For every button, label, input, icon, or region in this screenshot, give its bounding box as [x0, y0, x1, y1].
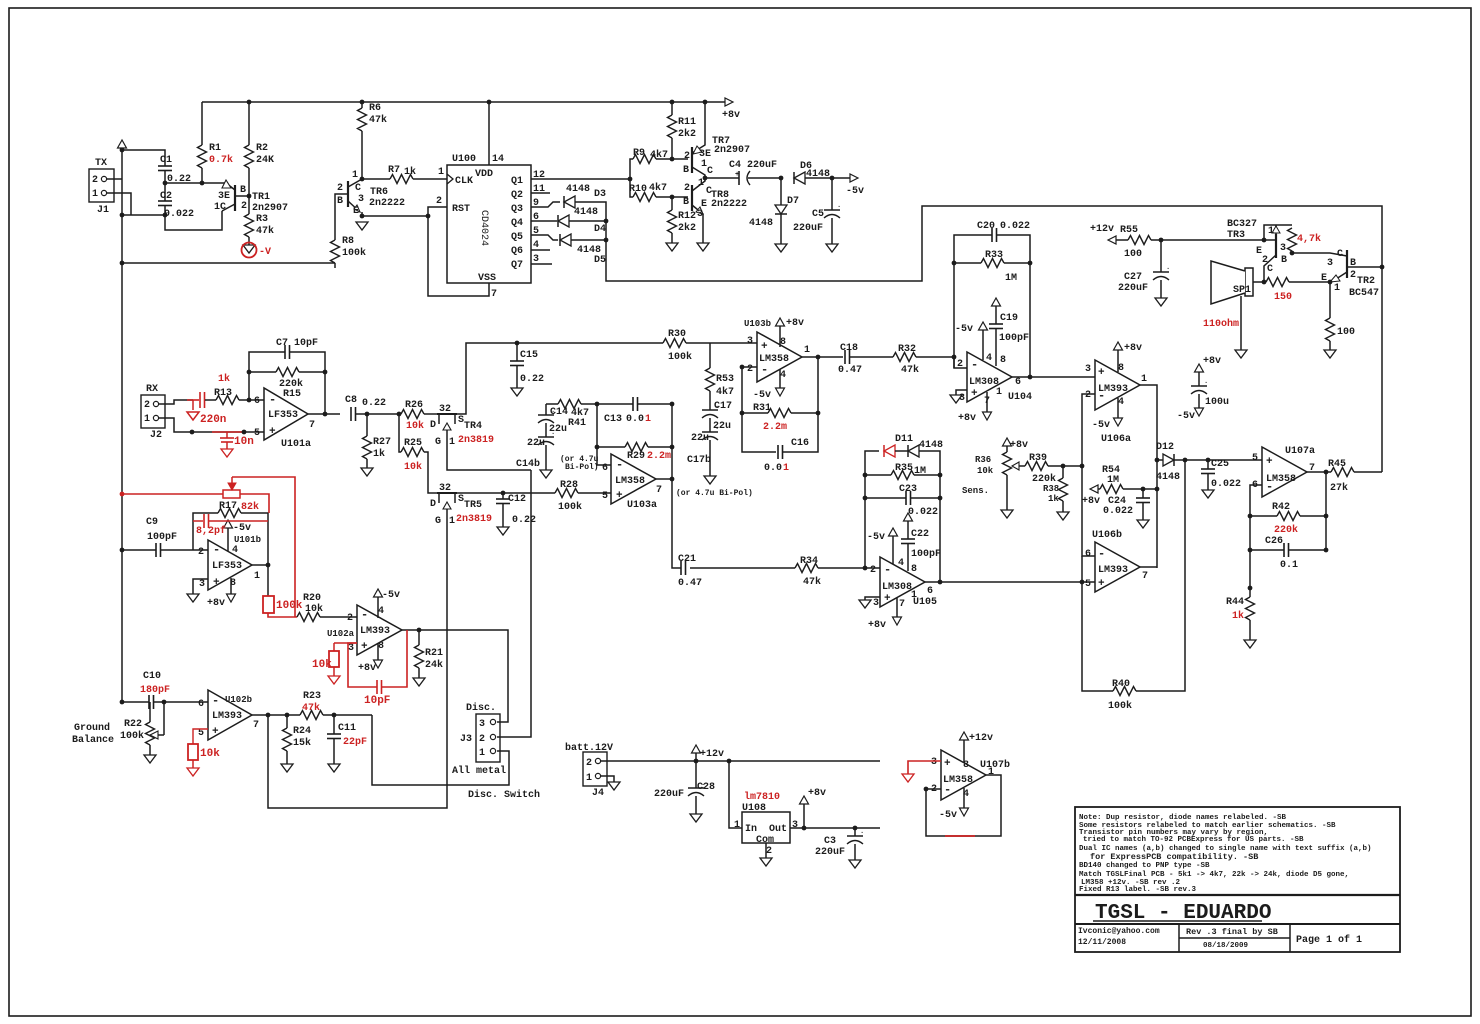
svg-text:2: 2 [1350, 270, 1356, 281]
wire R3 bottom [248, 237, 250, 245]
wire D11 mid [895, 450, 908, 452]
svg-text:220uF: 220uF [1118, 283, 1148, 294]
svg-text:10pF: 10pF [364, 695, 390, 707]
svg-text:D7: D7 [787, 196, 799, 207]
wire U101b pin3 gnd [193, 579, 208, 594]
resistor 150 [1266, 278, 1289, 287]
svg-text:C19: C19 [1000, 313, 1018, 324]
junction rail R11 [670, 100, 675, 105]
resistor R45 [1331, 468, 1354, 477]
junction C25 tap [1206, 458, 1211, 463]
wire R24 [286, 715, 288, 728]
svg-text:.: . [1166, 264, 1170, 272]
wire R55 right [1151, 239, 1264, 241]
svg-text:Note: Dup resistor, diode name: Note: Dup resistor, diode names relabele… [1079, 814, 1287, 822]
svg-text:R3: R3 [256, 214, 268, 225]
junction C13 right [670, 402, 675, 407]
svg-text:47k: 47k [256, 225, 274, 237]
wire C13 row [597, 403, 633, 405]
svg-text:1: 1 [1268, 226, 1274, 237]
power +V arrow TX [118, 140, 127, 148]
svg-text:3: 3 [697, 209, 703, 220]
capacitor C18 0.47 [844, 350, 846, 364]
junction U107b pin2 [924, 787, 929, 792]
capacitor C10 180pF [148, 695, 150, 709]
svg-text:2: 2 [436, 196, 442, 207]
capacitor C28 220uF [695, 761, 697, 788]
svg-text:J3: J3 [460, 734, 472, 745]
title block separator [1075, 894, 1400, 896]
title block outer box [1075, 807, 1400, 952]
svg-text:U101b: U101b [234, 535, 261, 545]
svg-text:2: 2 [957, 359, 963, 370]
svg-text:TX: TX [95, 158, 107, 169]
svg-text:10k: 10k [312, 659, 332, 671]
resistor 4.7k TR3 [1288, 228, 1297, 251]
capacitor C25 0.022 [1207, 460, 1209, 469]
resistor R30 [663, 339, 686, 348]
svg-text:5: 5 [1085, 579, 1091, 590]
svg-text:8,2pf: 8,2pf [196, 525, 226, 537]
transistor TR2 BC547 [1346, 250, 1348, 278]
wire R6 bottom [361, 131, 363, 179]
resistor 100 TR2 [1326, 318, 1335, 341]
svg-text:C28: C28 [697, 782, 715, 793]
capacitor C17 22u [709, 391, 711, 410]
svg-text:BD140 changed to PNP type -S: BD140 changed to PNP type -SB [1079, 862, 1210, 870]
svg-text:Ivconic@yahoo.com: Ivconic@yahoo.com [1078, 927, 1160, 936]
svg-text:R23: R23 [303, 691, 321, 702]
wire R30 right [686, 342, 757, 344]
svg-text:+8v: +8v [207, 598, 225, 609]
wire fb to pin2 [926, 789, 945, 836]
svg-text:8: 8 [1000, 355, 1006, 366]
diode D7 [775, 205, 787, 214]
svg-text:8: 8 [963, 760, 969, 771]
svg-text:2: 2 [1085, 390, 1091, 401]
wire C10 right [154, 701, 209, 703]
junction R12 base TR8 [670, 195, 675, 200]
svg-text:+12v: +12v [700, 749, 724, 760]
svg-text:-: - [269, 393, 276, 407]
svg-text:1C: 1C [214, 202, 226, 213]
svg-text:100k: 100k [668, 351, 692, 363]
svg-text:+: + [269, 426, 276, 438]
ground D7 [775, 244, 787, 252]
wire Q5 to D5 [531, 235, 558, 240]
wire R45 right [1354, 471, 1382, 473]
svg-text:TR2: TR2 [1357, 276, 1375, 287]
wire fb vertical [671, 404, 673, 479]
svg-text:Disc. Switch: Disc. Switch [468, 789, 540, 801]
power +12v batt [692, 745, 701, 753]
wire U103a out [656, 478, 672, 480]
capacitor C4 220uF [738, 171, 740, 185]
diode D3 [564, 196, 575, 208]
svg-text:2k2: 2k2 [678, 128, 696, 140]
wire TR5 gate long [268, 519, 447, 808]
svg-text:-: - [1098, 389, 1105, 403]
svg-text:12/11/2008: 12/11/2008 [1078, 938, 1126, 947]
svg-text:U102b: U102b [225, 695, 252, 705]
svg-text:3: 3 [348, 643, 354, 654]
wire D11 box left [865, 451, 879, 570]
svg-text:100pF: 100pF [911, 549, 941, 560]
wire R1 bottom [201, 168, 203, 183]
svg-text:U102a: U102a [327, 629, 355, 639]
wire U108 out [790, 827, 880, 829]
wire R17 right [241, 513, 268, 565]
junction TR7TR8 node [703, 176, 708, 181]
junction R35 left [863, 473, 868, 478]
svg-text:1: 1 [1334, 283, 1340, 294]
power +8v reg [800, 796, 809, 804]
svg-text:220uF: 220uF [793, 223, 823, 234]
svg-text:R39: R39 [1029, 453, 1047, 464]
svg-text:82k: 82k [241, 501, 259, 513]
svg-text:4k7: 4k7 [649, 182, 667, 194]
junction D5 bus [604, 238, 609, 243]
svg-text:3E: 3E [218, 191, 230, 202]
svg-text:8: 8 [911, 564, 917, 575]
svg-text:Q1: Q1 [511, 176, 523, 187]
wire R15 left [249, 371, 276, 373]
resistor R33 [981, 259, 1004, 268]
transistor TR6 2n2222 [347, 181, 349, 207]
svg-text:B: B [240, 185, 246, 196]
svg-text:6: 6 [602, 463, 608, 474]
svg-text:VSS: VSS [478, 273, 496, 284]
junction C26 right [1324, 548, 1329, 553]
svg-text:VDD: VDD [475, 169, 493, 180]
red cap 8,2pf [193, 520, 203, 522]
junction C3 tap [853, 826, 858, 831]
wire J1 pin1 [107, 193, 131, 215]
svg-text:10k: 10k [200, 748, 220, 760]
svg-text:R15: R15 [283, 389, 301, 400]
svg-text:6: 6 [1085, 549, 1091, 560]
svg-text:C13: C13 [604, 414, 622, 425]
svg-text:100k: 100k [342, 247, 366, 259]
pot R22 Ground Balance [149, 702, 151, 722]
wire R9 right [656, 158, 688, 160]
svg-text:6: 6 [198, 699, 204, 710]
wire pin2 jog [954, 357, 967, 368]
svg-text:+: + [884, 593, 891, 605]
junction C11 tap [332, 713, 337, 718]
svg-text:B: B [1281, 255, 1287, 266]
svg-text:C27: C27 [1124, 272, 1142, 283]
svg-text:R41: R41 [568, 418, 586, 429]
svg-text:2n2222: 2n2222 [369, 198, 405, 209]
svg-text:Balance: Balance [72, 734, 114, 746]
svg-text:0.47: 0.47 [838, 365, 862, 376]
svg-text:+8v: +8v [786, 318, 804, 329]
junction R11 base TR7 [670, 157, 675, 162]
svg-text:2n2907: 2n2907 [252, 203, 288, 214]
svg-text:15k: 15k [293, 737, 311, 749]
wire R12 bottom [671, 233, 673, 243]
resistor R8 [331, 240, 340, 263]
svg-text:Q5: Q5 [511, 232, 523, 243]
ground -V red circled [243, 245, 255, 253]
svg-text:U103a: U103a [627, 500, 657, 511]
svg-text:LM393: LM393 [1098, 565, 1128, 576]
red resistor 100k box [267, 565, 269, 596]
svg-text:+: + [361, 641, 368, 653]
svg-text:+8v: +8v [808, 788, 826, 799]
speaker SP1 [1245, 268, 1253, 296]
power U104 pin7 +8v [986, 392, 988, 412]
svg-text:C22: C22 [911, 529, 929, 540]
junction [120, 213, 125, 218]
svg-text:7: 7 [1142, 571, 1148, 582]
svg-text:J2: J2 [150, 430, 162, 441]
svg-text:C4 220uF: C4 220uF [729, 160, 777, 171]
svg-text:1k: 1k [373, 448, 385, 460]
transistor TR4 2n3819 JFET [437, 413, 457, 415]
junction D4 bus [604, 219, 609, 224]
svg-text:C1: C1 [160, 155, 172, 166]
wire R25 stub [399, 414, 401, 452]
svg-text:R29: R29 [627, 451, 645, 462]
svg-text:8: 8 [378, 641, 384, 652]
capacitor C1 [158, 165, 172, 167]
wire U107a pin6 [1250, 485, 1262, 516]
svg-text:0.1: 0.1 [1280, 560, 1298, 571]
svg-text:2.2m: 2.2m [647, 451, 671, 462]
capacitor C22 100pF [904, 513, 913, 521]
red pot R17 wiper net [122, 493, 223, 495]
resistor R17 82k [218, 509, 241, 518]
svg-text:B: B [683, 197, 689, 208]
svg-text:C11: C11 [338, 723, 356, 734]
svg-text:lm7810: lm7810 [744, 791, 780, 803]
svg-text:R20: R20 [303, 593, 321, 604]
junction R33 right [1028, 261, 1033, 266]
svg-text:4: 4 [1118, 397, 1124, 408]
op-amp U101b LF353 [208, 540, 252, 590]
wire D12 right [1174, 459, 1262, 461]
junction R42 left [1248, 514, 1253, 519]
wire J3 pin2 [497, 470, 531, 737]
wire R41 right [581, 403, 597, 405]
svg-text:10n: 10n [234, 436, 254, 448]
svg-text:+8v: +8v [868, 620, 886, 631]
svg-text:220uF: 220uF [654, 789, 684, 800]
svg-text:-5v: -5v [1177, 411, 1195, 422]
svg-text:D: D [430, 499, 436, 510]
transistor TR1 2n2907 [234, 185, 236, 211]
wire C5 bottom [831, 218, 833, 244]
svg-text:LM393: LM393 [360, 626, 390, 637]
resistor R40 [1113, 687, 1136, 696]
svg-text:+8v: +8v [358, 663, 376, 674]
resistor R25 [401, 448, 424, 457]
red wire 100k to R20 [268, 613, 297, 617]
junction R29 right [670, 445, 675, 450]
power arrow +8v rail [725, 98, 733, 106]
svg-text:110ohm: 110ohm [1203, 318, 1239, 330]
junction U105 out [938, 580, 943, 585]
junction rail R6 [360, 100, 365, 105]
svg-text:C2: C2 [160, 191, 172, 202]
diode D11b [908, 445, 919, 457]
svg-text:4148: 4148 [749, 218, 773, 229]
svg-text:+: + [1266, 456, 1273, 468]
svg-text:-: - [212, 694, 219, 708]
wire C8 right [356, 413, 400, 415]
svg-text:180pF: 180pF [140, 685, 170, 696]
capacitor C13 0.01 [632, 397, 634, 411]
svg-text:Sens.: Sens. [962, 486, 989, 496]
svg-text:D12: D12 [1156, 442, 1174, 453]
wire bottom return [122, 262, 335, 264]
junction C7R15 left [247, 370, 252, 375]
svg-text:Ground: Ground [74, 722, 110, 734]
svg-text:2.2m: 2.2m [763, 422, 787, 433]
svg-text:10k: 10k [404, 461, 422, 473]
wire speaker bottom [1240, 296, 1242, 350]
wire pin2 stub [742, 366, 757, 368]
svg-text:3: 3 [1085, 364, 1091, 375]
svg-text:LM393: LM393 [212, 711, 242, 722]
svg-text:2n2222: 2n2222 [711, 199, 747, 210]
svg-text:C17: C17 [714, 401, 732, 412]
svg-text:R38: R38 [1043, 484, 1059, 494]
svg-text:(or 4.7u Bi-Pol): (or 4.7u Bi-Pol) [676, 489, 753, 498]
wire pin6 drop [597, 404, 611, 465]
red pot wiper arrow [231, 477, 233, 486]
wire R28 right [578, 492, 611, 494]
wire C2 to left rail [122, 214, 165, 216]
resistor R3 [245, 214, 254, 237]
wire C16 right [783, 357, 819, 452]
svg-text:-: - [1266, 480, 1273, 494]
pot R36 Sens [1003, 438, 1012, 446]
svg-text:3: 3 [792, 820, 798, 831]
junction U101a out [323, 412, 328, 417]
wire J1 pin2 [107, 178, 122, 180]
svg-text:4: 4 [898, 558, 904, 569]
svg-text:R44: R44 [1226, 597, 1244, 608]
svg-text:C25: C25 [1211, 459, 1229, 470]
red resistor 10k U102a [333, 643, 335, 651]
svg-text:LF353: LF353 [212, 561, 242, 572]
capacitor C24 0.022 [1142, 489, 1144, 498]
svg-text:C: C [1267, 264, 1273, 275]
wire D5 to bus [571, 239, 606, 241]
junction U106b pin5 wire [1080, 580, 1085, 585]
svg-text:2: 2 [92, 175, 98, 186]
svg-text:3: 3 [1280, 243, 1286, 254]
svg-text:TR1: TR1 [252, 192, 270, 203]
svg-text:220uF: 220uF [815, 847, 845, 858]
svg-text:.: . [715, 424, 719, 432]
svg-text:47k: 47k [302, 702, 320, 714]
svg-text:Q3: Q3 [511, 204, 523, 215]
svg-text:R22: R22 [124, 719, 142, 730]
svg-text:Disc.: Disc. [466, 702, 496, 714]
junction +8v tap [802, 826, 807, 831]
svg-text:+: + [1098, 367, 1105, 379]
junction C26 left [1248, 548, 1253, 553]
wire R21 bottom [418, 668, 420, 678]
wire U104 out [1012, 376, 1095, 378]
svg-text:+: + [944, 758, 951, 770]
ground R27 [361, 468, 373, 476]
junction R29 left [595, 445, 600, 450]
svg-text:10k: 10k [305, 603, 323, 615]
svg-text:U106b: U106b [1092, 529, 1122, 541]
svg-text:C15: C15 [520, 350, 538, 361]
diode D11 red [884, 445, 895, 457]
wire R2 to TR1 base [248, 168, 250, 196]
wire R8 bottom [334, 263, 336, 268]
wire R6 top [361, 102, 363, 108]
svg-text:2: 2 [198, 547, 204, 558]
wire Q3 to D3 [531, 202, 560, 207]
wire U107b fb [945, 775, 1001, 836]
wire C9 right [161, 549, 209, 551]
wire C1-C2 node [164, 171, 166, 202]
wire R40 right [1136, 460, 1185, 691]
svg-text:32: 32 [439, 483, 451, 494]
wire C2 bottom [165, 206, 222, 231]
svg-text:0.22: 0.22 [520, 374, 544, 385]
resistor R35 1M [891, 471, 914, 480]
wire R10 stub [630, 179, 633, 197]
svg-text:-5v: -5v [846, 186, 864, 197]
wire TR4 source up [455, 343, 517, 414]
wire J2 pin2 [159, 400, 193, 404]
svg-text:D3: D3 [594, 189, 606, 200]
svg-text:4k7: 4k7 [716, 386, 734, 398]
svg-text:4148: 4148 [919, 440, 943, 451]
svg-text:1: 1 [449, 516, 455, 527]
power U104 pin4 -5v [979, 322, 988, 330]
svg-text:3: 3 [931, 757, 937, 768]
power arrow -5v out [850, 174, 858, 182]
op-amp U102b LM393 [208, 690, 252, 740]
wire +8v rail [202, 101, 729, 103]
junction R54 tap [1155, 487, 1160, 492]
op-amp U107b LM358 [941, 750, 986, 800]
svg-text:SP1: SP1 [1233, 285, 1251, 296]
svg-text:1: 1 [698, 178, 704, 189]
wire TR5 source [455, 492, 555, 494]
wire C7 box [249, 352, 285, 400]
wire C9 left [122, 549, 156, 551]
wire J4 pin1 gnd [601, 776, 614, 782]
svg-text:BC327: BC327 [1227, 219, 1257, 230]
wire U105 pin3 gnd [865, 597, 880, 600]
svg-text:C3: C3 [824, 836, 836, 847]
svg-text:D11: D11 [895, 434, 913, 445]
diode D4 [558, 215, 569, 227]
resistor R42 [1277, 512, 1300, 521]
svg-text:100pF: 100pF [147, 532, 177, 543]
junction TR1 base [247, 194, 252, 199]
svg-text:Page 1 of 1: Page 1 of 1 [1296, 934, 1362, 946]
svg-text:R55: R55 [1120, 225, 1138, 236]
wire U101a out [308, 413, 340, 415]
resistor R28 [555, 489, 578, 498]
svg-text:1M: 1M [1107, 475, 1119, 486]
svg-text:U106a: U106a [1101, 434, 1131, 445]
svg-text:4,7k: 4,7k [1297, 233, 1321, 245]
svg-text:7: 7 [491, 289, 497, 300]
